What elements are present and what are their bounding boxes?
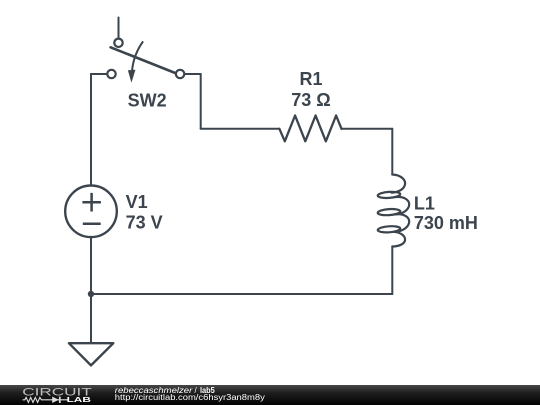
- logo diode triangle: [52, 397, 59, 403]
- footer bar: [0, 385, 540, 405]
- wire left circle to left rail: [91, 73, 106, 75]
- logo resistor squiggle: [23, 397, 45, 402]
- wire to resistor left terminal: [201, 128, 280, 130]
- wire node to ground: [90, 294, 92, 342]
- logo diode bar: [59, 397, 61, 403]
- inductor L1: [378, 175, 410, 247]
- wire switch top stub: [118, 18, 120, 38]
- svg-text:SW2: SW2: [128, 91, 167, 111]
- SW2 right terminal circle: [176, 70, 184, 78]
- svg-text:730 mH: 730 mH: [414, 213, 478, 233]
- wire right rail down to inductor: [391, 129, 393, 175]
- logo diode wire: [45, 399, 68, 401]
- SW2 lever: [111, 47, 176, 73]
- L1 loop 2: [378, 208, 401, 216]
- wire bottom rail: [91, 293, 392, 295]
- svg-text:LAB: LAB: [67, 395, 91, 404]
- V1 plus sign: [82, 193, 101, 212]
- svg-text:L1: L1: [414, 194, 435, 214]
- svg-text:R1: R1: [299, 69, 322, 89]
- voltage source V1: [65, 186, 117, 238]
- L1 loop 3: [378, 226, 401, 234]
- svg-text:73 V: 73 V: [126, 213, 163, 233]
- SW2 actuation arrow shaft: [132, 41, 143, 71]
- SW2 left terminal circle: [107, 70, 115, 78]
- wire inductor bottom down: [391, 247, 393, 295]
- wire left rail down to V1: [90, 74, 92, 185]
- node junction dot: [88, 291, 94, 297]
- L1 exit arc: [392, 232, 405, 247]
- L1 connecting arc 2: [395, 214, 410, 231]
- wire corner down to resistor row: [200, 74, 202, 129]
- wire resistor right terminal to corner: [342, 128, 393, 130]
- V1 body circle: [65, 186, 117, 238]
- L1 connecting arc 1: [395, 197, 410, 214]
- wire V1 bottom to node: [90, 238, 92, 295]
- SW2 actuation arrow head: [128, 70, 136, 83]
- ground: [69, 343, 113, 365]
- svg-text:http://circuitlab.com/c6hsyr3a: http://circuitlab.com/c6hsyr3an8m8y: [115, 393, 265, 402]
- SW2 top terminal circle: [114, 39, 122, 47]
- switch SW2: [107, 39, 184, 79]
- svg-text:V1: V1: [126, 192, 148, 212]
- wire switch right circle to corner: [185, 73, 200, 75]
- L1 loop 1: [378, 191, 401, 199]
- L1 entry arc: [392, 175, 406, 193]
- resistor R1: [279, 116, 341, 142]
- V1 minus sign: [83, 222, 101, 225]
- svg-text:73 Ω: 73 Ω: [291, 90, 330, 110]
